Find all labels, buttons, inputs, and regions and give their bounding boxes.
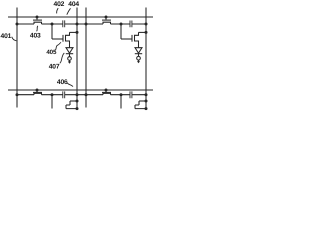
node dot row2 lower-power left xyxy=(76,107,79,110)
capacitor 402 (left) plates xyxy=(63,20,65,27)
diode (left OLED) cathode bar xyxy=(66,53,73,55)
wire: row2 right storage node down xyxy=(120,95,122,109)
wire: cathode lead to terminal xyxy=(69,54,71,57)
node dot wire1-power1 xyxy=(76,23,79,26)
node dot wire1-data1 xyxy=(16,23,19,26)
row2 left switch transistor channel xyxy=(34,93,42,94)
scan line row1 xyxy=(8,16,153,18)
transistor 403 gate bar xyxy=(33,19,42,21)
node dot row2 storage right xyxy=(120,93,123,96)
power line (right cell) xyxy=(145,8,147,110)
node dot row2 drain-power right xyxy=(145,100,148,103)
node dot wire1-data2 xyxy=(85,23,88,26)
right drive transistor drain lead xyxy=(139,31,147,33)
row2 left switch transistor gate lead xyxy=(36,90,38,92)
row2 left drive transistor partial channel xyxy=(66,101,77,109)
leader 401 xyxy=(12,37,17,41)
svg-text:404: 404 xyxy=(68,1,79,8)
row2 right switch transistor gate bar xyxy=(102,91,111,93)
transistor 405 gate bar xyxy=(62,35,64,42)
node dot wire2-data2 xyxy=(85,93,88,96)
wire: left storage node down xyxy=(51,24,53,39)
leader 402 xyxy=(57,8,59,13)
node dot row2 lower-power right xyxy=(145,107,148,110)
capacitor row2 right plates xyxy=(130,91,132,98)
leader 406 xyxy=(67,83,73,87)
diode (left OLED) triangle xyxy=(66,48,73,54)
svg-text:403: 403 xyxy=(30,32,41,39)
leader 407 xyxy=(60,53,65,63)
row2 right switch transistor channel xyxy=(103,93,111,94)
right drive transistor gate bar xyxy=(131,35,133,42)
right switch transistor gate bar xyxy=(102,19,111,21)
right drive transistor channel xyxy=(135,32,139,47)
node dot wire2-power1 xyxy=(76,93,79,96)
capacitor (right cell) plates xyxy=(130,21,132,28)
wire: gate lead to transistor 405 xyxy=(52,38,63,40)
node dot (right storage node) xyxy=(120,23,123,26)
node: gate junction dot row2 left xyxy=(36,89,39,92)
node dot drain-to-power (left) xyxy=(76,31,79,34)
row2 left drive transistor drain lead xyxy=(70,100,77,102)
power line (left cell) xyxy=(76,8,78,110)
node dot row2 storage left xyxy=(51,93,54,96)
transistor 405 channel xyxy=(66,32,70,47)
row2 right drive transistor drain lead xyxy=(139,100,146,102)
node: gate junction dot row2 right xyxy=(105,89,108,92)
wire: gate lead to right drive transistor xyxy=(121,38,132,40)
node dot wire1-power2 xyxy=(145,23,148,26)
wire: right storage node down xyxy=(120,24,122,39)
node dot row2 drain-power left xyxy=(76,100,79,103)
transistor 403 channel xyxy=(34,22,42,24)
transistor 405 drain lead xyxy=(70,31,78,33)
node: gate junction dot of transistor 403 xyxy=(36,16,39,19)
svg-text:406: 406 xyxy=(57,79,68,86)
capacitor row2 left plates xyxy=(63,91,65,98)
scan line row2 xyxy=(8,89,153,91)
wire row1 segments xyxy=(17,23,146,25)
data line (right column) xyxy=(85,8,87,108)
diode (right OLED) cathode bar xyxy=(135,53,142,55)
node dot wire2-power2 xyxy=(145,93,148,96)
node: gate junction dot of right switch transistor xyxy=(105,16,108,19)
row2 right switch transistor gate lead xyxy=(105,90,107,92)
diode (right OLED) triangle xyxy=(135,48,142,54)
leader 403 xyxy=(37,26,38,32)
leader 405 xyxy=(55,42,61,50)
node dot drain-to-power (right) xyxy=(145,31,148,34)
terminal arrowhead (right) xyxy=(137,60,140,63)
terminal 407 arrowhead (left) xyxy=(68,60,71,64)
right switch transistor gate lead xyxy=(105,17,107,20)
terminal circle (right) xyxy=(137,56,141,60)
right switch transistor channel xyxy=(103,22,111,24)
transistor 403 gate lead xyxy=(36,17,38,20)
row2 left switch transistor gate bar xyxy=(33,91,42,93)
node dot wire2-data1 xyxy=(16,93,19,96)
node A dot (left storage node) xyxy=(51,23,54,26)
terminal 407 circle (left) xyxy=(68,57,72,61)
wire row2 segments xyxy=(17,94,146,96)
svg-text:407: 407 xyxy=(49,64,60,71)
leader 404 xyxy=(67,8,71,14)
svg-text:402: 402 xyxy=(54,1,65,8)
data line 401 (left column) xyxy=(16,8,18,108)
wire: right cathode lead to terminal xyxy=(138,54,140,57)
wire: row2 left storage node down xyxy=(51,95,53,109)
row2 right drive transistor partial channel xyxy=(135,101,146,109)
svg-text:401: 401 xyxy=(1,33,12,40)
